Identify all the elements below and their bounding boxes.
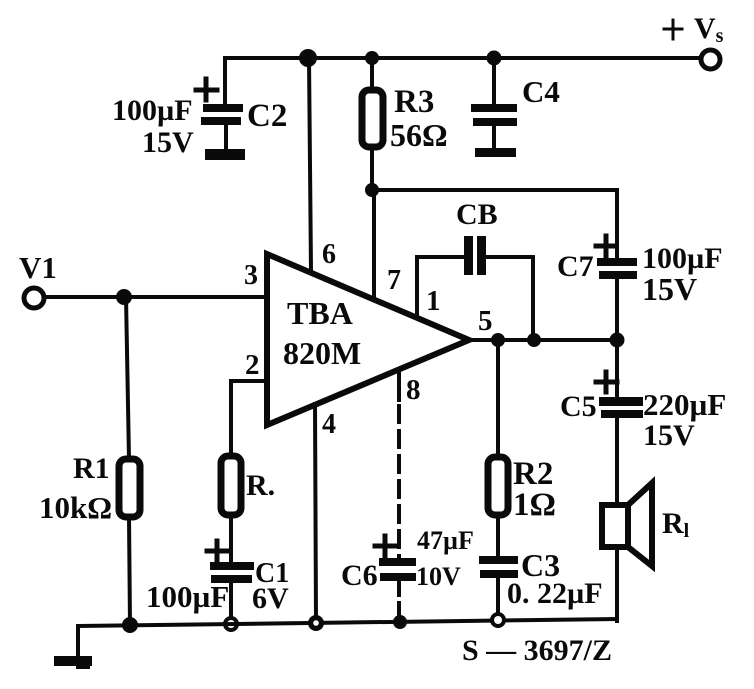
wire pin 1	[417, 257, 465, 318]
svg-text:5: 5	[478, 305, 493, 337]
svg-text:R3: R3	[394, 84, 434, 120]
node input junction	[116, 289, 132, 305]
svg-text:C7: C7	[557, 250, 594, 283]
node R3 rail junction	[365, 51, 379, 65]
svg-text:V1: V1	[19, 250, 57, 285]
speaker Rl	[602, 505, 628, 547]
svg-text:100µF: 100µF	[112, 94, 193, 127]
wire output node	[469, 338, 617, 342]
node R3 bottom junction	[365, 183, 379, 197]
terminal +Vs	[701, 50, 720, 69]
svg-text:1: 1	[426, 285, 441, 317]
capacitor C3	[479, 556, 518, 578]
svg-text:15V: 15V	[642, 271, 697, 307]
label +Vs	[664, 20, 682, 39]
svg-text:1Ω: 1Ω	[513, 487, 556, 523]
wire pin 4	[315, 404, 316, 621]
svg-text:15V: 15V	[142, 126, 194, 159]
wire pin 6	[309, 58, 311, 272]
svg-text:8: 8	[406, 374, 421, 406]
svg-text:C2: C2	[247, 98, 287, 134]
svg-text:C6: C6	[341, 559, 378, 592]
svg-text:47µF: 47µF	[417, 526, 474, 555]
capacitor CB	[464, 236, 486, 275]
ground	[76, 626, 80, 666]
wire pin 7	[372, 190, 376, 299]
svg-text:C5: C5	[560, 390, 597, 423]
svg-text:CB: CB	[456, 198, 498, 231]
svg-text:0. 22µF: 0. 22µF	[507, 577, 603, 610]
svg-text:10kΩ: 10kΩ	[39, 490, 112, 525]
node pin4 rail junction	[308, 615, 324, 631]
capacitor C4	[492, 58, 496, 104]
svg-text:6V: 6V	[252, 582, 289, 615]
svg-text:R1: R1	[73, 452, 110, 485]
svg-text:10V: 10V	[416, 562, 461, 591]
svg-text:56Ω: 56Ω	[390, 117, 448, 153]
wire speaker to rail	[615, 547, 619, 621]
svg-text:C4: C4	[522, 74, 560, 109]
wire CB right leg	[486, 257, 533, 340]
svg-text:2: 2	[245, 349, 260, 381]
wire pin 8 dashed	[397, 371, 401, 400]
wire input pin 3	[45, 295, 267, 299]
node pin6 rail junction	[299, 49, 317, 67]
wire pin 2	[231, 381, 267, 456]
svg-text:TBA: TBA	[287, 295, 353, 331]
svg-text:15V: 15V	[643, 419, 695, 452]
node C3 rail junction	[492, 614, 504, 626]
resistor R2	[496, 340, 500, 457]
node C4 rail junction	[487, 51, 502, 66]
capacitor C5	[615, 340, 619, 397]
op-amp U1 TBA820M	[267, 254, 469, 425]
resistor R.	[221, 456, 241, 515]
node C6 rail junction	[393, 615, 407, 629]
terminal V1	[24, 288, 44, 308]
capacitor C7	[596, 236, 616, 256]
svg-text:820M: 820M	[283, 335, 361, 371]
wire C2 riser	[223, 58, 227, 105]
resistor R3	[370, 58, 374, 90]
node output junctions	[491, 333, 505, 347]
svg-text:100µF: 100µF	[146, 579, 229, 614]
wire bottom ground rail	[78, 619, 617, 626]
wire bootstrap feedback	[372, 190, 617, 258]
svg-text:6: 6	[322, 239, 336, 270]
resistor R1	[126, 297, 129, 459]
capacitor C1	[207, 541, 228, 561]
svg-text:7: 7	[387, 265, 401, 296]
svg-text:4: 4	[322, 409, 336, 440]
capacitor C2	[201, 104, 245, 160]
capacitor C6	[375, 536, 396, 556]
svg-text:3: 3	[244, 260, 258, 291]
svg-text:S — 3697/Z: S — 3697/Z	[462, 634, 612, 667]
svg-text:220µF: 220µF	[643, 387, 726, 422]
node C1 rail junction	[225, 618, 237, 630]
wire top supply rail	[225, 56, 701, 60]
svg-text:Vs: Vs	[694, 12, 724, 47]
svg-text:Rl: Rl	[662, 507, 690, 542]
node R1 rail junction	[122, 617, 138, 633]
svg-text:R.: R.	[246, 469, 275, 502]
